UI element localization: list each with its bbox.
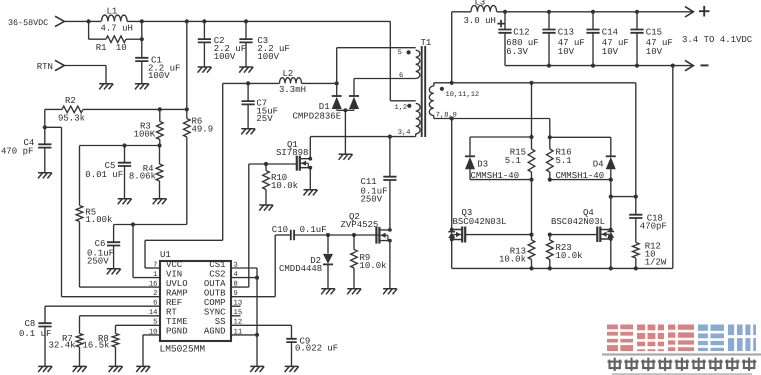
svg-text:4.7 uH: 4.7 uH <box>101 24 133 34</box>
svg-text:AGND: AGND <box>204 327 226 337</box>
wire Q2 source <box>389 241 391 289</box>
svg-text:D4: D4 <box>593 160 604 170</box>
wire Q3 main <box>451 119 453 269</box>
ground C2 <box>198 67 212 73</box>
svg-text:32.4k: 32.4k <box>49 341 76 351</box>
svg-text:6: 6 <box>399 72 403 80</box>
wire input to L1 <box>63 19 101 23</box>
ground Q2 <box>383 289 397 295</box>
node VIN+ input 36-58VDC <box>8 16 64 28</box>
svg-text:7: 7 <box>153 261 157 269</box>
resistor R1 <box>89 21 144 52</box>
resistor R7 <box>49 316 83 367</box>
wire PGND pin <box>143 335 160 367</box>
wire Q1 gate row <box>249 162 297 166</box>
wire RT stub <box>80 315 161 317</box>
wire TIME stub <box>116 324 161 326</box>
resistor R10 <box>263 164 298 205</box>
svg-text:1: 1 <box>153 271 157 279</box>
svg-text:1/2W: 1/2W <box>645 258 667 268</box>
svg-text:2: 2 <box>153 290 157 298</box>
T1 primary winding 5-6 <box>398 49 420 79</box>
svg-text:RTN: RTN <box>37 62 53 72</box>
svg-text:10: 10 <box>116 43 127 53</box>
svg-text:LM5025MM: LM5025MM <box>160 343 206 354</box>
svg-text:L3: L3 <box>475 0 486 8</box>
transistor Q4 <box>551 208 614 242</box>
resistor R6 <box>184 21 214 224</box>
diode D1b <box>293 96 360 121</box>
svg-text:10.0k: 10.0k <box>360 261 387 271</box>
ground C4 <box>38 173 52 179</box>
resistor R3 <box>134 109 164 145</box>
wire box1 top <box>470 83 534 139</box>
ground C9 <box>285 366 299 372</box>
svg-text:C14: C14 <box>602 27 618 37</box>
ground R7 <box>73 366 87 372</box>
wire +output rail <box>497 6 710 17</box>
transistor Q1 <box>276 140 312 171</box>
op-amp U1 LM5025MM controller <box>149 250 242 355</box>
wire secondary bottom stub <box>434 116 550 137</box>
ground AGND <box>250 366 264 372</box>
svg-text:L1: L1 <box>107 7 118 17</box>
wire R2 left to C4 node <box>43 109 47 129</box>
diode D1a <box>332 96 342 109</box>
svg-text:470 pF: 470 pF <box>1 147 33 157</box>
capacitor C6 <box>87 225 120 269</box>
wire box1 bottom <box>470 178 534 235</box>
diode D4 <box>556 137 616 181</box>
wire box2 bottom <box>548 169 613 229</box>
svg-text:10V: 10V <box>558 47 575 57</box>
svg-text:COMP: COMP <box>204 298 226 308</box>
wire VIN filter row <box>114 222 187 226</box>
svg-text:CMPD2836E: CMPD2836E <box>293 111 342 121</box>
inductor L3 <box>464 0 497 26</box>
svg-text:REF: REF <box>166 298 182 308</box>
wire D4 to C18 <box>611 195 638 199</box>
svg-text:470pF: 470pF <box>640 222 667 232</box>
svg-text:T1: T1 <box>421 38 432 48</box>
svg-text:CS2: CS2 <box>209 269 225 279</box>
T1 pin3,4 label <box>398 129 411 137</box>
wire Q4 source <box>610 239 612 268</box>
T1 primary winding 1,2-3,4 <box>390 101 420 137</box>
svg-text:C12: C12 <box>513 27 529 37</box>
ground R8 <box>109 366 123 372</box>
wire Q4 gate row <box>548 233 598 237</box>
capacitor C7 <box>242 83 279 128</box>
svg-text:250V: 250V <box>87 257 109 267</box>
label output voltage <box>682 35 753 45</box>
wire L3 riser <box>452 12 471 83</box>
svg-text:3.3mH: 3.3mH <box>279 85 306 95</box>
svg-text:10V: 10V <box>602 47 619 57</box>
inductor L2 <box>279 69 306 95</box>
resistor R15 <box>505 137 535 180</box>
svg-text:R2: R2 <box>65 96 76 106</box>
svg-text:0.022 uF: 0.022 uF <box>295 343 338 353</box>
capacitor C14 <box>586 12 628 66</box>
transistor Q3 <box>448 208 506 243</box>
svg-text:SS: SS <box>215 317 226 327</box>
capacitor C13 <box>542 12 584 66</box>
resistor R23 <box>547 235 583 269</box>
capacitor C1 <box>135 39 180 84</box>
svg-text:RT: RT <box>166 308 177 318</box>
svg-text:10: 10 <box>149 328 158 336</box>
resistor R12 <box>633 242 667 269</box>
capacitor C5 <box>85 146 131 199</box>
svg-text:TIME: TIME <box>166 317 188 327</box>
svg-text:0.01 uF: 0.01 uF <box>85 170 123 180</box>
resistor R9 <box>351 235 387 289</box>
ground C7 <box>241 129 255 135</box>
ground C3 <box>239 67 253 73</box>
svg-text:ZVP4525: ZVP4525 <box>341 220 379 230</box>
svg-text:6: 6 <box>153 300 157 308</box>
svg-text:R1: R1 <box>96 43 107 53</box>
wire L2 to D1 <box>302 81 339 85</box>
svg-text:PGND: PGND <box>166 327 188 337</box>
capacitor C15 <box>630 12 672 66</box>
svg-text:6.3V: 6.3V <box>506 47 528 57</box>
wire D1 anodes <box>337 108 354 154</box>
svg-text:C13: C13 <box>558 27 574 37</box>
svg-text:5.1: 5.1 <box>556 156 572 166</box>
svg-text:C15: C15 <box>646 27 662 37</box>
ground RTN <box>99 84 113 90</box>
wire C4 node to RAMP <box>45 127 160 296</box>
svg-text:VIN: VIN <box>166 269 182 279</box>
wire T1 pin6 <box>354 79 416 97</box>
wire bias row <box>223 81 280 85</box>
svg-text:100K: 100K <box>134 129 156 139</box>
capacitor C12 <box>497 12 538 66</box>
svg-text:100V: 100V <box>257 52 279 62</box>
wire COMP pin13 stub <box>231 305 241 307</box>
wire Q1 source <box>309 168 311 190</box>
resistor R2 <box>45 96 160 123</box>
wire RTN <box>63 66 106 84</box>
wire SYNC pin15 stub <box>231 315 241 317</box>
wire OUTA pin8 <box>231 164 249 287</box>
wire AGND pin11 <box>231 333 259 367</box>
ground R4 <box>153 199 167 205</box>
svg-text:3.4 TO 4.1VDC: 3.4 TO 4.1VDC <box>682 35 753 45</box>
svg-text:CS1: CS1 <box>209 260 225 270</box>
wire CS2 pin4 <box>231 276 259 335</box>
T1 pin6 label <box>399 72 403 80</box>
wire R2 row to R6 <box>158 107 189 111</box>
resistor R13 <box>499 235 535 269</box>
capacitor C11 <box>361 137 397 230</box>
wire -output rail <box>505 60 709 70</box>
capacitor C10 <box>272 225 380 240</box>
svg-text:8.06k: 8.06k <box>129 172 156 182</box>
divider row <box>80 143 162 147</box>
ground D2 <box>321 289 335 295</box>
svg-text:VCC: VCC <box>166 260 183 270</box>
capacitor C9 <box>286 337 338 367</box>
svg-text:1,2: 1,2 <box>395 104 408 112</box>
wire VCC rail <box>145 83 223 268</box>
ground C6 <box>107 269 121 275</box>
svg-text:0.1 uF: 0.1 uF <box>19 329 51 339</box>
svg-text:C8: C8 <box>25 319 36 329</box>
svg-text:95.3k: 95.3k <box>58 113 85 123</box>
svg-text:3.0 uH: 3.0 uH <box>464 16 496 26</box>
svg-text:OUTA: OUTA <box>204 279 226 289</box>
svg-text:5.1: 5.1 <box>505 156 521 166</box>
svg-text:250V: 250V <box>361 194 383 204</box>
wire OUTB pin9 <box>231 235 291 297</box>
svg-text:SI7898: SI7898 <box>276 148 308 158</box>
ground PGND <box>136 366 150 372</box>
svg-text:D3: D3 <box>477 160 488 170</box>
svg-text:U1: U1 <box>160 250 171 260</box>
svg-text:10.0k: 10.0k <box>556 251 583 261</box>
svg-text:SYNC: SYNC <box>204 308 226 318</box>
svg-text:10,11,12: 10,11,12 <box>446 91 480 99</box>
inductor L1 <box>101 7 133 34</box>
wire SS pin12 <box>231 325 292 338</box>
wire box2 top <box>548 135 611 139</box>
svg-text:OUTB: OUTB <box>204 289 226 299</box>
wire output return rail <box>452 66 673 271</box>
capacitor C2 <box>198 21 246 67</box>
resistor R4 <box>129 146 163 199</box>
wire REF stub <box>45 305 160 307</box>
ground D1 <box>339 154 353 160</box>
ground Q1 <box>304 190 318 196</box>
node RTN input <box>37 60 65 72</box>
svg-text:UVLO: UVLO <box>166 279 188 289</box>
wire UVLO stub <box>80 286 161 288</box>
svg-text:16: 16 <box>149 281 158 289</box>
resistor R5 <box>76 146 112 288</box>
svg-text:100V: 100V <box>214 52 236 62</box>
capacitor C4 <box>1 127 51 173</box>
wire Q3 gate row <box>466 233 534 237</box>
svg-text:10.0k: 10.0k <box>499 255 526 265</box>
capacitor C18 <box>629 83 667 243</box>
svg-text:36-58VDC: 36-58VDC <box>8 18 48 28</box>
resistor R8 <box>83 325 119 366</box>
svg-text:16.5k: 16.5k <box>83 341 110 351</box>
ground C8 <box>38 366 52 372</box>
svg-text:49.9: 49.9 <box>192 124 214 134</box>
svg-text:C10: C10 <box>272 225 288 235</box>
svg-text:BSC042N03L: BSC042N03L <box>551 217 605 227</box>
ground R9 <box>347 289 361 295</box>
ground C1 <box>135 84 149 90</box>
svg-text:1.00k: 1.00k <box>85 215 112 225</box>
resistor R16 <box>547 137 572 179</box>
ground R10 <box>259 205 273 211</box>
diode D2 <box>279 235 333 289</box>
svg-text:BSC042N03L: BSC042N03L <box>453 217 507 227</box>
ground C5 <box>118 199 132 205</box>
transistor Q2 <box>341 212 392 243</box>
capacitor C8 <box>19 306 52 366</box>
svg-text:5: 5 <box>153 319 157 327</box>
wire Q1 drain <box>309 137 311 159</box>
watermark edatop <box>602 324 761 375</box>
wire T1 pin5 <box>337 48 416 96</box>
svg-text:L2: L2 <box>283 69 294 79</box>
capacitor C3 <box>239 21 289 67</box>
wire VIN pin <box>133 225 160 278</box>
wire 3,4 row <box>310 135 415 139</box>
transformer T1 core <box>421 38 432 137</box>
diode D3 <box>465 137 519 181</box>
svg-text:RAMP: RAMP <box>166 289 188 299</box>
T1 secondary winding <box>429 83 479 120</box>
svg-text:100V: 100V <box>148 71 170 81</box>
svg-text:14: 14 <box>149 309 158 317</box>
svg-text:5: 5 <box>398 49 402 57</box>
svg-text:CMDD4448: CMDD4448 <box>279 264 322 274</box>
svg-text:0.1uF: 0.1uF <box>300 225 327 235</box>
svg-text:10V: 10V <box>646 47 663 57</box>
wire L1 out / top rail <box>127 19 390 101</box>
svg-text:10.0k: 10.0k <box>271 181 298 191</box>
svg-text:25V: 25V <box>256 114 273 124</box>
wire secondary top stub <box>434 81 636 85</box>
wire CS1 pin3 <box>231 268 257 278</box>
